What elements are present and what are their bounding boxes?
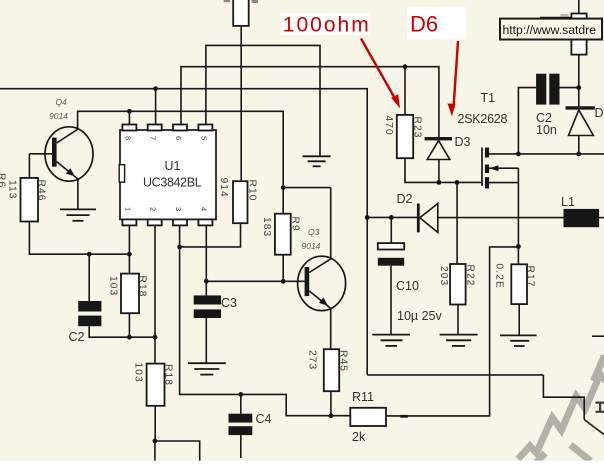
- label fragment right: [252, 0, 259, 3]
- pin 6: [173, 125, 187, 131]
- node C4 top junction: [238, 392, 243, 397]
- svg-text:R18: R18: [163, 364, 174, 386]
- wire pin7 up to bus: [155, 89, 157, 125]
- wire R22 bottom to ground: [457, 305, 459, 335]
- svg-text:D5: D5: [595, 106, 604, 120]
- wire bottom bus y=374.9 to x=543.4: [367, 374, 543, 376]
- node R23 top junction: [403, 64, 408, 69]
- node R18 lower bottom junction: [153, 439, 158, 444]
- transistor T1 MOSFET: [482, 148, 518, 189]
- svg-text:http://www.satdre: http://www.satdre: [503, 23, 597, 37]
- node R45 bottom junction: [329, 413, 334, 418]
- pin 7: [148, 125, 162, 131]
- svg-text:2SK2628: 2SK2628: [458, 112, 508, 126]
- svg-text:203: 203: [438, 266, 449, 286]
- svg-text:0.2E: 0.2E: [494, 264, 505, 289]
- wire R18 lower bottom lead: [154, 406, 156, 441]
- svg-text:R23: R23: [412, 117, 423, 139]
- svg-text:T1: T1: [481, 91, 496, 105]
- wire R18 upper bottom lead: [128, 313, 130, 337]
- resistor R10: [233, 181, 248, 223]
- svg-text:2: 2: [149, 207, 158, 211]
- resistor R46: [21, 178, 39, 222]
- wire junction to Q3 base: [283, 280, 304, 282]
- wire R18 upper top lead: [128, 254, 130, 273]
- gray smudge left of top right resistor: [561, 14, 569, 17]
- node pin2/C2 wire junction: [153, 335, 158, 340]
- capacitor C2 left plates: [78, 301, 101, 312]
- resistor R9: [275, 214, 291, 255]
- wire C2 bottom lead and over to pin2 vertical: [89, 326, 155, 337]
- wire R11 right to source net: [386, 247, 518, 416]
- svg-text:Q4: Q4: [56, 97, 68, 107]
- capacitor C2 top right plates: [536, 74, 546, 105]
- wire R23 top lead from bus: [404, 67, 406, 115]
- wire top right resistor bottom lead down to D5: [578, 55, 580, 107]
- svg-text:183: 183: [261, 217, 272, 237]
- capacitor C3 plates: [194, 295, 221, 304]
- node pin7/bus junction: [153, 86, 158, 91]
- node pin4 wire junction: [204, 279, 209, 284]
- svg-text:R45: R45: [338, 350, 349, 372]
- resistor R23: [397, 115, 413, 158]
- wire R46 bottom to pin1 junction y=254.2: [29, 222, 129, 255]
- inductor L1: [564, 209, 600, 227]
- svg-text:R22: R22: [465, 265, 476, 287]
- node pin8/bus junction: [127, 109, 132, 114]
- svg-text:6: 6: [174, 136, 183, 140]
- pin 5: [198, 125, 212, 131]
- svg-text:C10: C10: [396, 279, 419, 293]
- wire top resistor down to R10: [240, 26, 242, 181]
- wire pin4 junction to Q3 base junction: [206, 280, 283, 282]
- transistor Q3: [298, 256, 346, 310]
- resistor R17: [511, 264, 527, 304]
- svg-text:D3: D3: [455, 135, 471, 149]
- wire pin1 down: [128, 225, 130, 254]
- svg-text:2k: 2k: [352, 430, 366, 444]
- wire R17 bottom to ground: [518, 304, 520, 335]
- op-amp U1 IC body: [120, 130, 216, 219]
- svg-text:4: 4: [199, 207, 208, 211]
- resistor R18 upper: [121, 274, 139, 314]
- node Q3 base junction: [281, 279, 286, 284]
- resistor top right under red box: [571, 14, 586, 55]
- right edge marks: [596, 402, 604, 413]
- wire R9 bottom lead: [282, 255, 284, 282]
- svg-text:R46: R46: [36, 180, 47, 202]
- ground under C3: [188, 363, 226, 374]
- annotation white patch 100ohm: [280, 13, 369, 35]
- svg-text:470: 470: [383, 116, 394, 136]
- node C2 right junction: [576, 85, 581, 90]
- svg-text:103: 103: [108, 276, 119, 296]
- svg-text:L1: L1: [561, 195, 575, 209]
- pin 3: [173, 219, 187, 225]
- ground under Q4: [60, 209, 96, 220]
- wire source vertical down to R17: [517, 168, 519, 264]
- wire drain rail y=153.9 to right edge: [489, 153, 604, 155]
- wire D3 bottom lead: [438, 160, 440, 183]
- wire C2 top lead: [88, 254, 90, 301]
- wire C2 right lead: [560, 87, 579, 89]
- wire tick on R11 right wire: [400, 415, 407, 418]
- svg-text:100ohm: 100ohm: [283, 13, 371, 36]
- resistor top partial: [233, 0, 249, 26]
- label fragment left: [224, 0, 231, 2]
- svg-text:D2: D2: [397, 192, 413, 206]
- capacitor C10 polarized: [378, 243, 404, 249]
- node C2 top junction: [87, 252, 92, 257]
- wire R9 junction to Q3 collector: [283, 187, 331, 189]
- svg-text:R17: R17: [525, 266, 536, 288]
- svg-text:113: 113: [7, 180, 18, 200]
- svg-text:UC3842BL: UC3842BL: [143, 176, 202, 190]
- diode D3: [425, 137, 452, 140]
- diode D2: [417, 204, 420, 233]
- svg-text:R11: R11: [352, 390, 374, 404]
- url box: [500, 19, 602, 40]
- node pin1 junction: [127, 252, 132, 257]
- annotation white patch D6: [407, 7, 466, 39]
- pin 4: [198, 219, 212, 225]
- node source/R17 junction: [516, 244, 521, 249]
- wire gate junction down to R22: [456, 182, 458, 264]
- wire Q3 collector up to junction: [330, 188, 332, 260]
- svg-text:U1: U1: [165, 159, 181, 173]
- wire junction down to bottom edge: [154, 441, 156, 461]
- node C10 top junction: [389, 215, 394, 220]
- wire R23 bottom lead and gate wire: [405, 158, 482, 182]
- wire Q3 emitter to R45: [330, 309, 332, 349]
- wire R10 bottom to pin3 vertical: [180, 223, 241, 247]
- diode D5: [566, 106, 595, 109]
- ground under C10: [372, 335, 410, 346]
- node pin3 junction: [177, 245, 182, 250]
- svg-text:9014: 9014: [302, 241, 321, 251]
- notch: [119, 165, 124, 183]
- wire C3 bottom lead to ground: [205, 318, 207, 363]
- svg-text:8: 8: [123, 136, 132, 140]
- svg-text:273: 273: [307, 350, 318, 370]
- annotation arrow to R23: [361, 39, 400, 109]
- wire pin3 down, corner right to R11 left: [180, 225, 351, 416]
- wire pin6 up and over to D3 top: [181, 67, 439, 138]
- capacitor C4 plates: [229, 414, 253, 423]
- wire right edge stub: [592, 335, 604, 337]
- svg-text:3: 3: [174, 207, 183, 211]
- svg-text:10n: 10n: [536, 123, 557, 137]
- ground under R17: [500, 335, 536, 346]
- resistor R45: [324, 349, 339, 391]
- svg-text:1: 1: [123, 207, 132, 211]
- node D5 bottom junction: [576, 152, 581, 157]
- svg-text:R9: R9: [290, 217, 301, 232]
- wire step down right: x=543 to diagonal start: [543, 375, 584, 420]
- svg-text:5: 5: [199, 136, 208, 140]
- pin 1: [122, 219, 136, 225]
- resistor R11: [350, 408, 386, 426]
- annotation arrow to D3: [448, 41, 459, 117]
- pin 2: [148, 219, 162, 225]
- svg-text:R6: R6: [0, 173, 7, 188]
- svg-text:10µ 25v: 10µ 25v: [397, 309, 442, 323]
- node D2 cathode junction: [365, 215, 370, 220]
- node gate net junction: [455, 180, 460, 185]
- svg-text:914: 914: [218, 178, 229, 198]
- transistor Q4: [29, 127, 93, 210]
- wire junction right then down to bottom edge: [155, 441, 200, 461]
- wire top right resistor top lead: [578, 0, 580, 14]
- svg-text:D6: D6: [410, 11, 438, 36]
- node D3 bottom junction: [437, 180, 442, 185]
- svg-text:7: 7: [149, 136, 158, 140]
- svg-text:9014: 9014: [49, 111, 68, 121]
- svg-text:103: 103: [133, 363, 144, 383]
- wire L1 right lead to edge: [599, 217, 604, 219]
- node R18 upper bottom junction: [127, 335, 132, 340]
- svg-text:C2: C2: [69, 330, 85, 344]
- svg-text:Q3: Q3: [308, 227, 320, 237]
- svg-text:C3: C3: [221, 296, 237, 310]
- svg-text:R18: R18: [137, 276, 148, 298]
- svg-text:R10: R10: [247, 180, 258, 202]
- wire D5 bottom lead: [578, 136, 580, 154]
- wire D2 anode to L1: [438, 217, 564, 219]
- ground pin5 bus: [303, 156, 331, 166]
- wire pin5 up and over to ground: [206, 45, 320, 156]
- resistor R18 lower: [147, 364, 165, 406]
- wire C2 left lead up-over: [518, 88, 536, 154]
- wire pin2 down to R18 lower: [154, 225, 156, 364]
- wire diagonal to right edge: [584, 420, 604, 435]
- wire stub left of top right resistor: [540, 17, 571, 19]
- wire C4 top lead: [240, 394, 242, 413]
- wire C10 top lead: [390, 217, 392, 243]
- wire bus y=88.7 from left edge to x=368 then down to y=374.9: [0, 89, 367, 375]
- wire R45 bottom lead: [330, 391, 332, 416]
- white bottom strip: [0, 461, 604, 475]
- ground under R22: [440, 335, 478, 346]
- pin 8: [122, 125, 136, 131]
- resistor R22: [450, 264, 466, 305]
- wire C10 bottom lead to ground: [390, 266, 392, 335]
- node R9 top junction: [281, 185, 286, 190]
- wire pin8 up to bus y=111.3: [128, 111, 130, 124]
- wire C4 bottom lead: [240, 435, 242, 458]
- watermark WWW: [518, 356, 604, 464]
- wire pin4 down to C3: [205, 225, 207, 296]
- wire bus y=111.3 Q4 collector to x=283.2 down to R9: [78, 111, 284, 213]
- node drain/C2 junction: [516, 152, 521, 157]
- svg-text:C4: C4: [256, 412, 272, 426]
- wire D2 cathode to bus vertical: [367, 216, 417, 218]
